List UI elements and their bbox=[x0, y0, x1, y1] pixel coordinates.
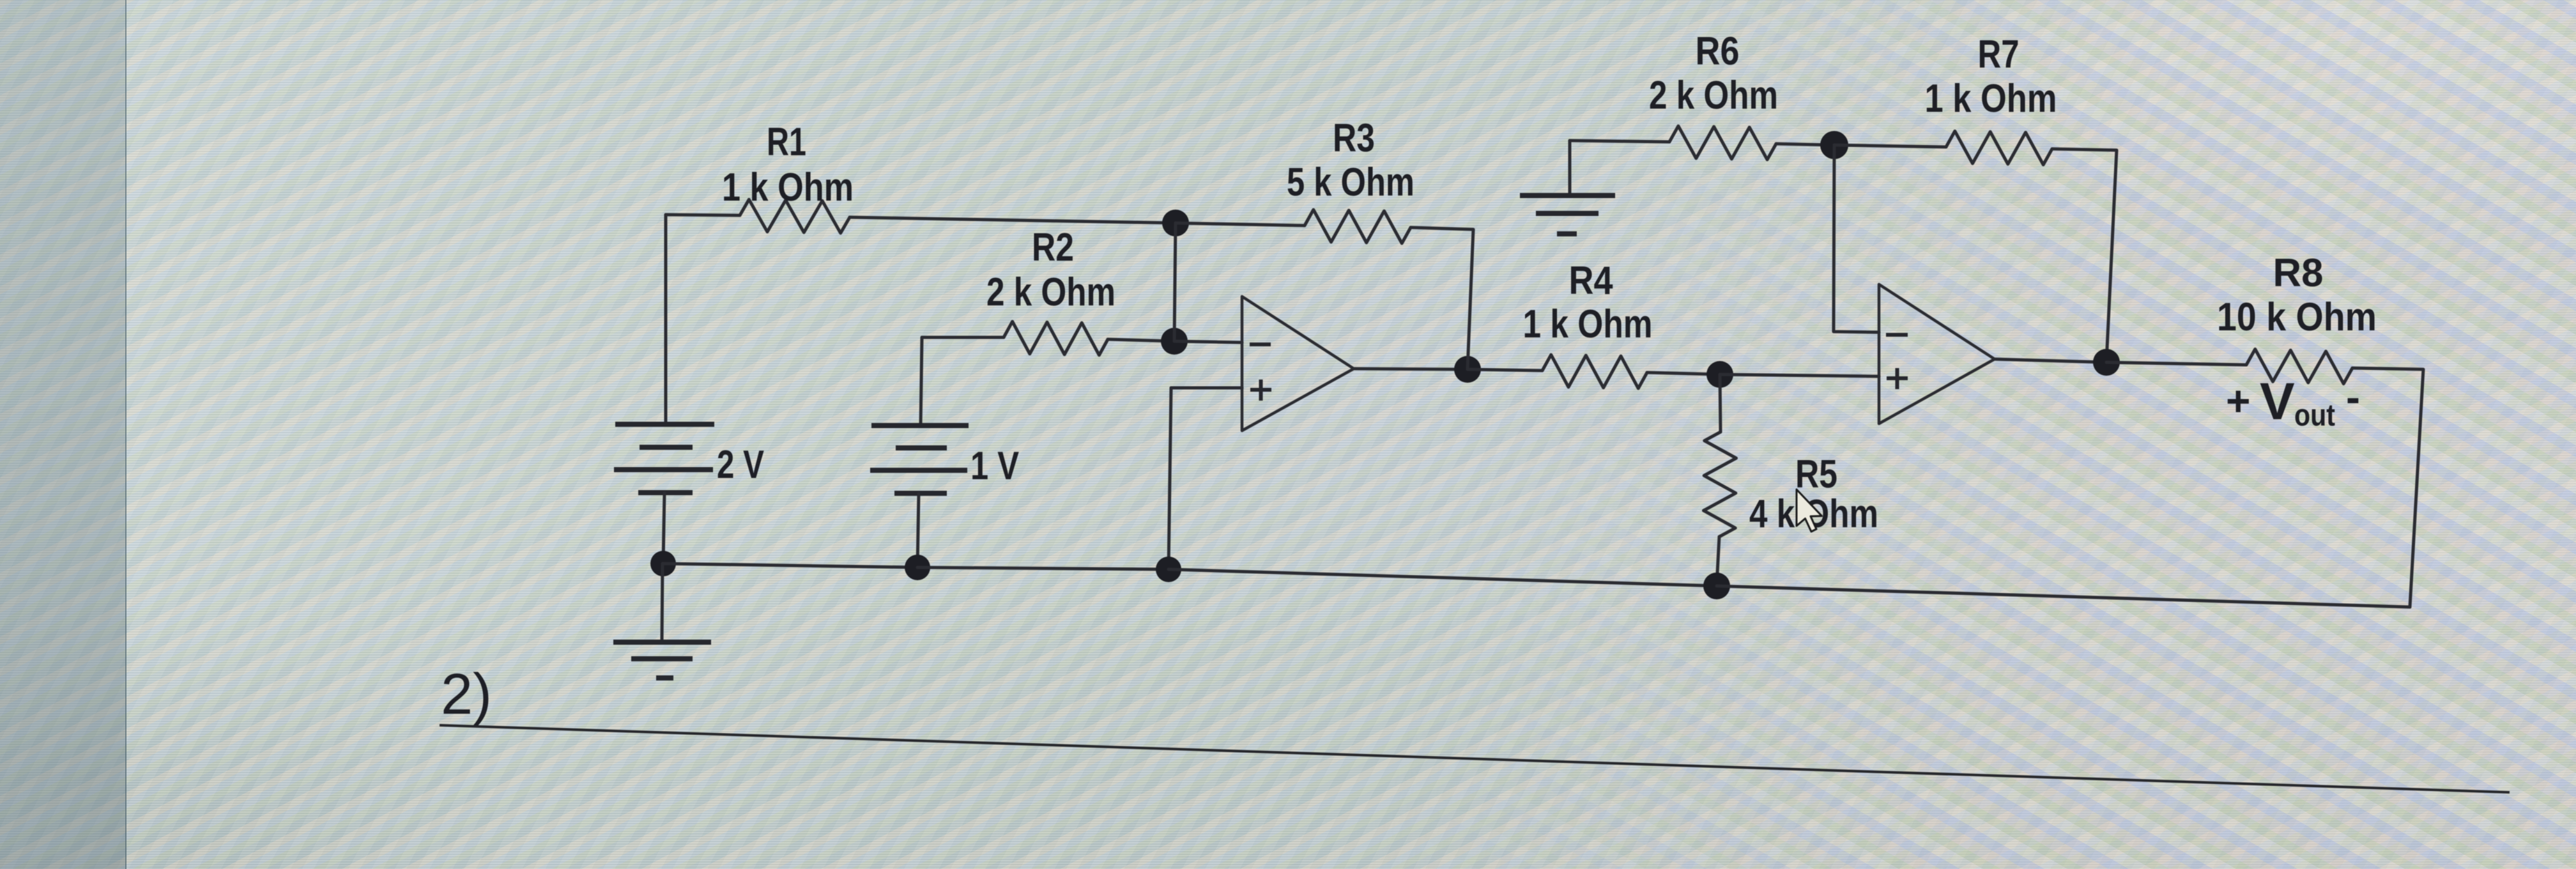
wire: U2 output to node N5 bbox=[1995, 359, 2106, 362]
node N6 (R6/R7 junction) bbox=[1820, 131, 1848, 159]
resistor R3 bbox=[1305, 210, 1411, 243]
wire: bottom rail A to B bbox=[663, 564, 917, 567]
node B bbox=[905, 555, 930, 580]
wire: R1 to node N1 bbox=[850, 217, 1176, 223]
svg-text:R3: R3 bbox=[1333, 116, 1375, 160]
svg-text:1 k Ohm: 1 k Ohm bbox=[1523, 302, 1653, 346]
wire: N1 to N2 vertical bbox=[1174, 223, 1176, 341]
node A (bottom left junction) bbox=[650, 551, 676, 576]
op-amp U1 bbox=[1242, 296, 1354, 431]
svg-text:1 k Ohm: 1 k Ohm bbox=[1925, 77, 2057, 121]
wire: N1 to R3 bbox=[1176, 223, 1305, 226]
node N2 (R2/inverting input junction) bbox=[1161, 328, 1188, 355]
U1 minus pin mark bbox=[1250, 342, 1271, 346]
svg-text:2 V: 2 V bbox=[717, 443, 764, 487]
U2 minus pin mark bbox=[1886, 333, 1908, 337]
wire: ground corner to R6 bbox=[1570, 141, 1669, 142]
wire: top wire left segment from left rail to R1 bbox=[666, 215, 740, 215]
node D bbox=[1703, 573, 1730, 599]
node N3 (U1 output) bbox=[1454, 356, 1481, 383]
svg-text:R1: R1 bbox=[767, 120, 806, 164]
resistor R1 bbox=[740, 199, 850, 233]
svg-text:out: out bbox=[2294, 399, 2335, 433]
battery V2 1V plates bbox=[871, 423, 969, 428]
svg-text:2 k Ohm: 2 k Ohm bbox=[1649, 73, 1778, 118]
wire: R2 lead left bbox=[922, 336, 1004, 339]
wire: V1 bottom lead to node A bbox=[663, 493, 664, 564]
wire: R4 to node N4 bbox=[1647, 373, 1720, 374]
wire: bottom rail D to right corner bbox=[1717, 586, 2410, 607]
resistor R5 (vertical) bbox=[1720, 374, 1721, 432]
node N4 bbox=[1706, 361, 1733, 388]
battery V1 2V plates bbox=[615, 422, 714, 427]
svg-text:R2: R2 bbox=[1032, 226, 1074, 270]
op-amp U2 bbox=[1879, 284, 1995, 424]
ground for R6 branch bbox=[1568, 141, 1572, 195]
svg-text:2): 2) bbox=[441, 663, 492, 727]
wire: R7 right corner down to node N5 bbox=[2052, 149, 2117, 362]
wire: V2 bottom lead to node B bbox=[917, 493, 919, 567]
svg-text:V: V bbox=[2260, 373, 2295, 431]
wire: bottom rail B to C bbox=[917, 567, 1169, 569]
darker left band of photographed screen bbox=[0, 0, 126, 869]
wire: N5 to R8 bbox=[2106, 362, 2246, 365]
wire: N4 to op-amp U2 non-inverting input bbox=[1720, 374, 1879, 376]
resistor R2 bbox=[1004, 321, 1108, 355]
svg-text:-: - bbox=[2346, 373, 2360, 420]
wire: non-inverting input of U1 from node C bbox=[1171, 387, 1242, 390]
resistor R4 bbox=[1542, 355, 1647, 388]
resistor R8 bbox=[2246, 349, 2352, 383]
node N5 (U2 output) bbox=[2093, 349, 2120, 376]
wire: U1 output to node N3 bbox=[1354, 369, 1468, 369]
svg-text:R6: R6 bbox=[1696, 29, 1740, 73]
svg-text:10 k Ohm: 10 k Ohm bbox=[2217, 295, 2377, 339]
node N1 (R1/R3 junction) bbox=[1162, 210, 1189, 236]
svg-text:R4: R4 bbox=[1569, 259, 1613, 303]
svg-text:R5: R5 bbox=[1795, 452, 1837, 496]
wire: bottom rail C to D bbox=[1169, 569, 1717, 586]
svg-text:1 V: 1 V bbox=[970, 444, 1019, 488]
wire: left vertical rail down to V1 battery bbox=[664, 215, 668, 424]
wire: R2 left corner down to V2 battery bbox=[921, 337, 922, 426]
U1 plus pin mark bbox=[1250, 380, 1271, 401]
resistor R7 bbox=[1946, 131, 2052, 165]
svg-text:R8: R8 bbox=[2273, 251, 2324, 295]
svg-text:2 k Ohm: 2 k Ohm bbox=[986, 270, 1115, 314]
ground below node A bbox=[662, 564, 663, 642]
wire: R3 right corner down to N3 bbox=[1411, 227, 1473, 369]
svg-text:+: + bbox=[2226, 377, 2251, 424]
answer underline bbox=[440, 725, 2510, 792]
wire: N3 to R4 bbox=[1468, 369, 1542, 371]
wire: N6 to R7 bbox=[1834, 145, 1946, 147]
mouse cursor over R5 value bbox=[1797, 489, 1822, 532]
wire: N2 to op-amp U1 inverting input bbox=[1174, 341, 1242, 342]
wire: R8 to right corner and down right rail bbox=[2352, 368, 2423, 607]
wire: R6 to node N6 bbox=[1776, 144, 1834, 145]
resistor R6 bbox=[1669, 126, 1776, 160]
wire: N6 down and to U2 inverting input bbox=[1834, 145, 1879, 332]
node C bbox=[1156, 557, 1181, 582]
wire: R2 to node N2 bbox=[1108, 339, 1174, 341]
svg-text:R7: R7 bbox=[1978, 33, 2020, 77]
svg-text:5 k Ohm: 5 k Ohm bbox=[1287, 160, 1414, 204]
U2 plus pin mark bbox=[1887, 368, 1908, 389]
svg-text:1 k Ohm: 1 k Ohm bbox=[722, 165, 854, 210]
